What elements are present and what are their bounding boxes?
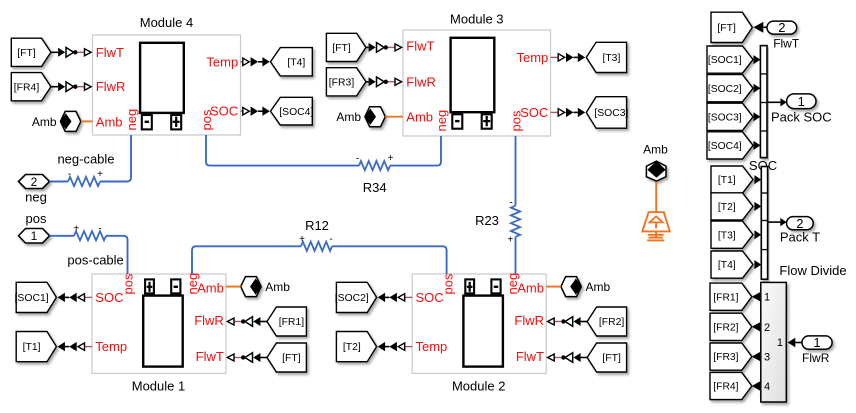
wire neg-cable to Module4.neg	[100, 135, 131, 182]
From tag [T2] -> T mux	[711, 193, 753, 220]
From tag [T1] -> T mux	[711, 166, 753, 193]
label Amb (Module 4 ambient)	[32, 115, 57, 129]
port label FlwR (Module 2)	[514, 313, 544, 328]
port label FlwT (Module 4)	[96, 45, 124, 60]
polarity label + (R12)	[299, 234, 305, 245]
From tag [FR3] -> Module3.FlwR	[326, 68, 366, 96]
port label pos (Module 3, rotated)	[509, 110, 524, 131]
svg-text:R34: R34	[363, 180, 387, 195]
svg-text:Module 3: Module 3	[450, 12, 503, 27]
svg-text:2: 2	[31, 175, 38, 189]
arrow Flow Divide out 3 to [FR3]	[752, 352, 760, 361]
wire ambient connector to thermal reference (orange)	[655, 182, 657, 213]
svg-text:4: 4	[764, 381, 770, 393]
svg-text:+: +	[507, 235, 513, 246]
svg-text:[FT]: [FT]	[717, 23, 736, 34]
label FlwT (inport 2)	[773, 36, 800, 50]
From tag [FR1] -> Module1.FlwR	[267, 307, 306, 336]
label pos-cable	[67, 253, 123, 268]
svg-text:[SOC1]: [SOC1]	[708, 55, 742, 66]
svg-text:neg: neg	[505, 273, 520, 295]
label Flow Divide	[779, 263, 846, 278]
Goto tag [SOC4] <- Module4.SOC	[271, 97, 314, 125]
svg-text:Amb: Amb	[586, 280, 611, 294]
arrow [T2] into T mux	[754, 202, 761, 211]
label Amb (Module 3 ambient)	[336, 110, 361, 124]
svg-text:[SOC4]: [SOC4]	[279, 107, 313, 118]
svg-text:[T2]: [T2]	[718, 202, 736, 213]
mux SOC (vertical bar)	[760, 46, 767, 158]
port label pos (Module 4, rotated)	[199, 109, 214, 130]
svg-text:1: 1	[764, 292, 770, 304]
svg-text:-: -	[68, 169, 71, 180]
outport 2 (Pack T)	[787, 216, 814, 231]
svg-text:Module 1: Module 1	[132, 379, 185, 394]
svg-text:Amb: Amb	[406, 110, 433, 125]
wire/arrows [FT] to FlwT input of Module 2	[548, 353, 588, 363]
svg-text:Module 2: Module 2	[452, 379, 505, 394]
Goto tag [T3] <- Module3.Temp	[586, 42, 626, 72]
label neg-cable	[57, 152, 114, 167]
svg-text:pos: pos	[26, 211, 47, 226]
svg-text:1: 1	[798, 94, 805, 109]
From tag [SOC4] -> SOC mux	[707, 132, 753, 159]
battery module block Module 4	[93, 35, 241, 135]
polarity label + (R23)	[507, 235, 513, 246]
mux T (vertical bar)	[761, 167, 767, 280]
port label FlwR (Module 3)	[406, 74, 436, 89]
svg-text:FlwR: FlwR	[802, 351, 830, 365]
From tag [FR4] -> Module4.FlwR	[11, 73, 51, 101]
svg-text:[FT]: [FT]	[17, 48, 36, 59]
wire/arrows Module 4 Temp output	[241, 57, 270, 66]
polarity label - (R34)	[356, 154, 359, 165]
port label FlwT (Module 2)	[516, 349, 544, 364]
svg-text:neg: neg	[124, 109, 139, 131]
port label pos (Module 2, rotated)	[441, 273, 456, 294]
label pos	[26, 211, 47, 226]
svg-text:[FT]: [FT]	[282, 353, 301, 364]
Goto tag [T1] <- Module1.Temp	[16, 332, 56, 362]
wire/arrows [FR4] to FlwR input of Module 4	[51, 82, 91, 92]
wire R34 to Module3.neg	[390, 136, 441, 166]
Goto tag [T4] <- Module4.Temp	[271, 48, 313, 76]
svg-text:pos: pos	[441, 273, 456, 294]
From tag [FT] -> Module1.FlwT	[267, 343, 306, 372]
label Amb (Module 2 ambient)	[586, 280, 611, 294]
svg-text:[FR3]: [FR3]	[713, 352, 738, 363]
svg-text:Amb: Amb	[517, 280, 544, 295]
label R12	[305, 218, 329, 233]
port 2 (neg terminal)	[19, 175, 50, 189]
svg-text:FlwR: FlwR	[406, 74, 436, 89]
wire/arrows [FR2] to FlwR input of Module 2	[548, 317, 588, 327]
svg-text:[T3]: [T3]	[718, 230, 736, 241]
svg-text:Pack SOC: Pack SOC	[771, 109, 832, 124]
svg-text:Flow Divide: Flow Divide	[779, 263, 846, 278]
label SOC (mux name)	[749, 158, 777, 173]
svg-text:FlwT: FlwT	[773, 36, 800, 50]
svg-text:[T4]: [T4]	[718, 260, 736, 271]
ambient port connector (Module 4)	[60, 111, 81, 131]
wire Amb connector to Module 1 Amb port (orange)	[226, 286, 241, 288]
polarity label - (neg-cable)	[68, 169, 71, 180]
port label FlwR (Module 4)	[96, 79, 126, 94]
arrow [T4] into T mux	[754, 260, 761, 269]
arrow Flow Divide out 4 to [FR4]	[752, 381, 760, 390]
title Module 4	[140, 15, 193, 30]
From tag [SOC3] -> SOC mux	[707, 103, 753, 130]
port label pos (Module 1, rotated)	[121, 273, 136, 294]
svg-text:Amb: Amb	[32, 115, 57, 129]
svg-text:neg: neg	[185, 273, 200, 295]
svg-text:[T2]: [T2]	[343, 342, 361, 353]
resistor R23	[511, 206, 520, 237]
svg-text:[T1]: [T1]	[23, 342, 41, 353]
title Module 2	[452, 379, 505, 394]
svg-text:[FR4]: [FR4]	[14, 82, 40, 93]
svg-text:2: 2	[764, 322, 770, 334]
svg-text:+: +	[388, 153, 394, 164]
port label SOC (Module 4)	[210, 104, 238, 119]
wire/arrows Module 3 Temp output	[551, 53, 586, 62]
svg-text:FlwR: FlwR	[514, 313, 544, 328]
svg-text:[T3]: [T3]	[602, 53, 620, 64]
wire Amb connector to Module 4 Amb port (orange)	[81, 120, 93, 122]
wire R23 to Module2.neg	[515, 237, 517, 274]
svg-text:Amb: Amb	[265, 280, 290, 294]
battery icon Module 3	[451, 38, 495, 129]
wire Module3.pos to R23	[515, 136, 517, 206]
svg-text:[SOC1]: [SOC1]	[15, 293, 49, 304]
port label Temp (Module 4)	[206, 54, 238, 69]
port label neg (Module 1, rotated)	[185, 273, 200, 295]
arrow [T3] into T mux	[754, 230, 761, 239]
svg-text:SOC: SOC	[95, 290, 123, 305]
polarity label - (R23)	[509, 198, 512, 209]
port label neg (Module 3, rotated)	[434, 110, 449, 132]
label neg	[25, 190, 47, 205]
ambient connector (vertical, center)	[646, 161, 666, 181]
label R34	[363, 180, 387, 195]
svg-text:[SOC2]: [SOC2]	[708, 84, 742, 95]
port label SOC (Module 3)	[520, 105, 548, 120]
ambient port connector (Module 1)	[241, 277, 262, 297]
arrow inport2 to [FT]	[753, 22, 767, 33]
svg-text:FlwR: FlwR	[96, 79, 126, 94]
port label Temp (Module 3)	[517, 50, 549, 65]
svg-text:Temp: Temp	[95, 339, 127, 354]
svg-text:pos-cable: pos-cable	[67, 253, 123, 268]
svg-text:+: +	[97, 169, 103, 180]
svg-text:[FR1]: [FR1]	[713, 292, 738, 303]
svg-text:+: +	[299, 234, 305, 245]
svg-text:neg: neg	[25, 190, 47, 205]
svg-text:1: 1	[31, 229, 38, 243]
Goto tag [SOC2] <- Module2.SOC	[335, 282, 377, 312]
wire Amb connector to Module 3 Amb port (orange)	[385, 116, 403, 118]
label FlwR (inport 1)	[802, 351, 830, 365]
svg-text:2: 2	[778, 20, 785, 35]
port label FlwT (Module 3)	[406, 38, 434, 53]
wire/arrow T mux to outport 2	[768, 218, 787, 226]
svg-text:[FR2]: [FR2]	[713, 322, 738, 333]
arrow [SOC4] into SOC mux	[754, 141, 761, 150]
battery icon Module 4	[140, 43, 184, 130]
svg-text:Temp: Temp	[206, 54, 238, 69]
port label FlwT (Module 1)	[196, 349, 224, 364]
title Module 1	[132, 379, 185, 394]
resistor pos-cable	[74, 231, 106, 240]
pin label 1 (Flow Divide input)	[777, 337, 783, 349]
svg-text:[SOC2]: [SOC2]	[335, 293, 369, 304]
pin label 4 (Flow Divide output 4)	[764, 381, 770, 393]
svg-text:pos: pos	[199, 109, 214, 130]
svg-text:neg-cable: neg-cable	[57, 152, 114, 167]
arrow [T1] into T mux	[754, 175, 761, 184]
svg-text:-: -	[98, 224, 101, 235]
svg-text:Amb: Amb	[643, 143, 668, 157]
polarity label - (pos-cable)	[98, 224, 101, 235]
svg-text:FlwT: FlwT	[406, 38, 434, 53]
svg-text:[T4]: [T4]	[287, 57, 305, 68]
ambient port connector (Module 3)	[365, 107, 386, 127]
wire pos-cable to Module1.pos	[106, 236, 128, 274]
battery icon Module 2	[463, 279, 503, 366]
svg-text:pos: pos	[121, 273, 136, 294]
svg-text:Amb: Amb	[336, 110, 361, 124]
wire/arrows [FR3] to FlwR input of Module 3	[366, 77, 402, 87]
svg-text:[FR3]: [FR3]	[329, 77, 355, 88]
svg-text:FlwT: FlwT	[196, 349, 224, 364]
battery module block Module 3	[403, 30, 551, 136]
port label SOC (Module 1)	[95, 290, 123, 305]
battery module block Module 2	[412, 274, 546, 373]
svg-text:R12: R12	[305, 218, 329, 233]
svg-text:-: -	[356, 154, 359, 165]
inport 1 (FlwR)	[802, 335, 832, 350]
Goto tag [FT] <- inport FlwT	[711, 12, 752, 42]
From tag [FT] -> Module4.FlwT	[11, 38, 51, 66]
battery icon Module 1	[143, 279, 183, 366]
wire port2 to neg-cable resistor	[50, 181, 69, 183]
resistor R12	[301, 242, 332, 251]
svg-text:+: +	[73, 224, 79, 235]
svg-text:SOC: SOC	[520, 105, 548, 120]
port 1 (pos terminal)	[19, 229, 50, 244]
outport 1 (Pack SOC)	[787, 94, 816, 109]
From tag [T3] -> T mux	[711, 221, 753, 248]
arrow [SOC2] into SOC mux	[754, 84, 761, 93]
svg-text:[SOC3]: [SOC3]	[594, 108, 628, 119]
arrow Flow Divide out 1 to [FR1]	[752, 292, 760, 301]
inport 2 (FlwT)	[767, 20, 797, 35]
svg-text:[T1]: [T1]	[718, 175, 736, 186]
label R23	[475, 213, 499, 228]
Goto tag [FR4] <- Flow Divide out 4	[710, 372, 752, 399]
svg-text:R23: R23	[475, 213, 499, 228]
label Amb (Module 1 ambient)	[265, 280, 290, 294]
svg-text:neg: neg	[434, 110, 449, 132]
wire/arrows Module 1 SOC output	[58, 293, 93, 302]
svg-text:[SOC4]: [SOC4]	[708, 141, 742, 152]
arrow inport1 to Flow Divide	[788, 338, 802, 347]
svg-text:Amb: Amb	[197, 280, 224, 295]
svg-text:-: -	[329, 234, 332, 245]
svg-text:FlwT: FlwT	[516, 349, 544, 364]
battery module block Module 1	[92, 274, 226, 373]
wire/arrows [FT] to FlwT input of Module 4	[51, 48, 91, 58]
svg-text:Module 4: Module 4	[140, 15, 193, 30]
wire port1 to pos-cable resistor	[50, 235, 75, 237]
wire Module1.neg to R12	[192, 246, 301, 274]
polarity label - (R12)	[329, 234, 332, 245]
wire/arrows [FR1] to FlwR input of Module 1	[227, 317, 267, 327]
svg-text:1: 1	[813, 335, 820, 350]
polarity label + (neg-cable)	[97, 169, 103, 180]
pin label 1 (Flow Divide output 1)	[764, 292, 770, 304]
port label neg (Module 2, rotated)	[505, 273, 520, 295]
wire/arrows Module 4 SOC output	[241, 107, 270, 116]
label Pack T	[780, 230, 820, 245]
wire/arrows [FT] to FlwT input of Module 3	[366, 43, 402, 53]
svg-text:[FR4]: [FR4]	[713, 382, 738, 393]
title Module 3	[450, 12, 503, 27]
wire/arrows Module 1 Temp output	[58, 342, 93, 351]
wire/arrow SOC mux to outport 1	[767, 98, 787, 106]
svg-text:[FR2]: [FR2]	[599, 317, 625, 328]
Goto tag [SOC3] <- Module3.SOC	[586, 97, 628, 129]
port label Amb (Module 1)	[197, 280, 224, 295]
svg-text:Temp: Temp	[416, 339, 448, 354]
Goto tag [FR3] <- Flow Divide out 3	[710, 343, 752, 370]
svg-text:pos: pos	[509, 110, 524, 131]
From tag [FT] -> Module3.FlwT	[326, 33, 366, 61]
svg-text:Pack T: Pack T	[780, 230, 820, 245]
From tag [FR2] -> Module2.FlwR	[587, 307, 626, 336]
pin label 2 (Flow Divide output 2)	[764, 322, 770, 334]
block Flow Divide	[761, 282, 787, 402]
svg-text:FlwT: FlwT	[96, 45, 124, 60]
From tag [SOC2] -> SOC mux	[707, 75, 753, 102]
svg-text:3: 3	[764, 352, 770, 364]
wire/arrows Module 2 Temp output	[378, 342, 413, 351]
svg-text:[FT]: [FT]	[602, 353, 621, 364]
arrow Flow Divide out 2 to [FR2]	[752, 322, 760, 331]
svg-text:[SOC3]: [SOC3]	[708, 112, 742, 123]
ambient port connector (Module 2)	[561, 277, 582, 297]
port label neg (Module 4, rotated)	[124, 109, 139, 131]
Goto tag [T2] <- Module2.Temp	[336, 332, 376, 362]
svg-text:[FT]: [FT]	[332, 43, 351, 54]
wire/arrows [FT] to FlwT input of Module 1	[227, 353, 267, 363]
From tag [FT] -> Module2.FlwT	[587, 343, 626, 372]
arrow [SOC1] into SOC mux	[754, 55, 761, 64]
port label Amb (Module 4)	[96, 115, 123, 130]
Goto tag [SOC1] <- Module1.SOC	[15, 282, 57, 312]
svg-text:FlwR: FlwR	[194, 313, 224, 328]
wire Amb connector to Module 2 Amb port (orange)	[546, 286, 561, 288]
wire R12 to Module2.pos	[332, 246, 447, 274]
port label Temp (Module 2)	[416, 339, 448, 354]
resistor R34	[359, 161, 390, 170]
svg-text:SOC: SOC	[416, 290, 444, 305]
polarity label + (pos-cable)	[73, 224, 79, 235]
polarity label + (R34)	[388, 153, 394, 164]
thermal reference symbol (orange)	[642, 212, 670, 240]
pin label 3 (Flow Divide output 3)	[764, 352, 770, 364]
Goto tag [FR1] <- Flow Divide out 1	[710, 283, 752, 310]
label Pack SOC	[771, 109, 832, 124]
Goto tag [FR2] <- Flow Divide out 2	[710, 313, 752, 340]
svg-text:[FR1]: [FR1]	[279, 317, 305, 328]
svg-text:-: -	[509, 198, 512, 209]
wire Module4.pos to R34	[206, 135, 359, 166]
port label FlwR (Module 1)	[194, 313, 224, 328]
wire/arrows Module 3 SOC output	[551, 108, 586, 117]
wire/arrows Module 2 SOC output	[378, 293, 413, 302]
port label Amb (Module 3)	[406, 110, 433, 125]
svg-text:SOC: SOC	[210, 104, 238, 119]
arrow [SOC3] into SOC mux	[754, 112, 761, 121]
From tag [T4] -> T mux	[711, 251, 753, 278]
svg-text:Amb: Amb	[96, 115, 123, 130]
svg-text:Temp: Temp	[517, 50, 549, 65]
port label SOC (Module 2)	[416, 290, 444, 305]
From tag [SOC1] -> SOC mux	[707, 46, 753, 73]
port label Temp (Module 1)	[95, 339, 127, 354]
port label Amb (Module 2)	[517, 280, 544, 295]
resistor neg-cable	[68, 177, 100, 186]
svg-text:1: 1	[777, 337, 783, 349]
label Amb (ambient reference)	[643, 143, 668, 157]
